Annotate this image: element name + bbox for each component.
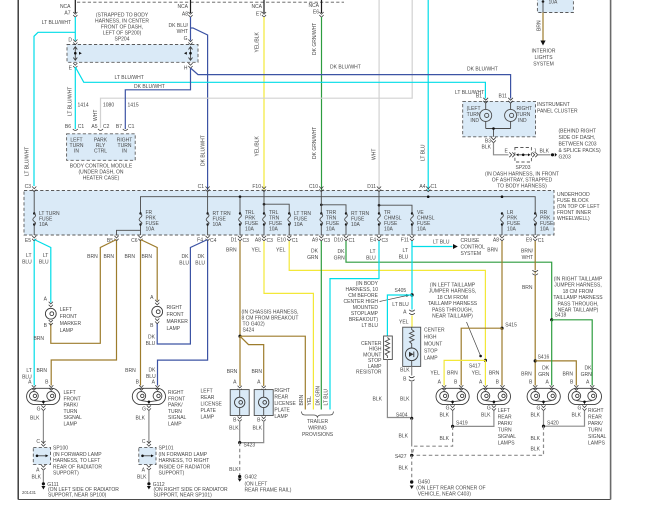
svg-text:B11: B11 <box>498 94 507 100</box>
svg-text:REAR: REAR <box>588 415 602 421</box>
svg-text:S420: S420 <box>547 421 559 427</box>
svg-text:JUMPER HARNESS,: JUMPER HARNESS, <box>429 289 477 295</box>
svg-text:PARK/: PARK/ <box>64 403 79 409</box>
svg-text:HEATER CASE): HEATER CASE) <box>83 176 120 182</box>
fuse 10A top right <box>542 0 545 3</box>
wire LT BLU jog to marker lamp A <box>34 240 51 303</box>
svg-text:LEFT: LEFT <box>498 408 510 414</box>
terminal A7 <box>73 12 77 17</box>
svg-text:LT: LT <box>43 253 48 259</box>
svg-text:BLK: BLK <box>373 397 383 403</box>
wire BLK to S404 <box>411 382 413 418</box>
svg-text:INTERIOR: INTERIOR <box>532 49 556 55</box>
splice S415 <box>500 327 503 330</box>
svg-text:REAR: REAR <box>274 395 288 401</box>
underhood fuse block box <box>24 191 554 236</box>
wire NCA A8 <box>190 0 192 13</box>
svg-text:SYSTEM: SYSTEM <box>533 62 554 68</box>
svg-text:CTRL: CTRL <box>94 149 107 155</box>
wire BRN S415 down to lamp4 B <box>501 328 503 385</box>
svg-text:SIGNAL: SIGNAL <box>588 434 607 440</box>
svg-text:F10: F10 <box>252 184 261 190</box>
ground G111 <box>42 482 45 485</box>
svg-text:LT BLU: LT BLU <box>421 144 427 161</box>
svg-text:DK BLU/WHT: DK BLU/WHT <box>467 67 498 73</box>
wire DK BLU C4 straight down then to right park lamp A <box>158 241 208 386</box>
bus bar park feed <box>141 197 536 214</box>
svg-text:BETWEEN C203: BETWEEN C203 <box>559 142 597 148</box>
svg-text:DK GRN: DK GRN <box>315 386 321 406</box>
svg-text:S424: S424 <box>243 328 255 334</box>
svg-text:& SPLICE PACKS): & SPLICE PACKS) <box>559 148 601 154</box>
svg-text:PLATE: PLATE <box>274 408 290 414</box>
splice S418 <box>550 318 553 321</box>
svg-text:FRONT: FRONT <box>64 396 81 402</box>
svg-text:DK: DK <box>338 249 346 255</box>
svg-text:LAMP: LAMP <box>201 415 215 421</box>
svg-text:CENTER: CENTER <box>424 328 445 334</box>
right rear license plate lamp <box>254 380 273 424</box>
svg-text:SIGNAL: SIGNAL <box>168 415 187 421</box>
splice S419 <box>451 425 454 428</box>
svg-text:BLK: BLK <box>540 149 550 155</box>
wire BRN C6 jog to right marker lamp A <box>141 240 158 301</box>
svg-text:LT: LT <box>26 368 31 374</box>
svg-text:LAMP: LAMP <box>167 326 181 332</box>
wire DK BLU F4 jog then to right marker lamp B <box>157 240 207 345</box>
wire BRN to interior lights <box>542 13 544 42</box>
svg-text:C1: C1 <box>349 238 356 244</box>
wire DK BLU/WHT from A8 down to G <box>190 17 192 41</box>
svg-text:YEL: YEL <box>307 396 313 406</box>
svg-text:VEHICLE, NEAR C403): VEHICLE, NEAR C403) <box>418 492 471 498</box>
svg-text:G: G <box>142 407 146 413</box>
svg-text:BRN: BRN <box>124 254 135 260</box>
wire BRN S424 to trailer <box>240 336 305 409</box>
wire LT BLU E4 down-left to trailer <box>330 241 379 410</box>
svg-text:TAILLAMP HARNESS: TAILLAMP HARNESS <box>428 301 478 307</box>
svg-text:1080: 1080 <box>103 103 114 109</box>
svg-text:RESISTOR: RESISTOR <box>356 370 382 376</box>
svg-text:A9: A9 <box>312 238 318 244</box>
svg-text:RIGHT: RIGHT <box>274 388 290 394</box>
svg-text:BLK: BLK <box>481 413 491 419</box>
svg-text:BLU: BLU <box>399 255 409 261</box>
svg-text:RIGHT: RIGHT <box>588 408 604 414</box>
svg-text:A8: A8 <box>255 238 261 244</box>
splice S404 <box>410 417 413 420</box>
svg-text:LAMP: LAMP <box>60 328 74 334</box>
svg-text:SUPPORT): SUPPORT) <box>159 471 185 477</box>
svg-text:DK BLU/WHT: DK BLU/WHT <box>330 65 361 71</box>
svg-text:SYSTEM: SYSTEM <box>461 251 482 257</box>
svg-text:10A: 10A <box>507 227 517 233</box>
svg-text:BLK: BLK <box>531 413 541 419</box>
svg-text:C: C <box>142 439 146 445</box>
svg-text:18 CM FROM: 18 CM FROM <box>437 295 468 301</box>
svg-text:10A: 10A <box>245 227 255 233</box>
svg-text:LIGHTS: LIGHTS <box>534 55 553 61</box>
svg-text:C3: C3 <box>267 238 274 244</box>
svg-text:YEL: YEL <box>252 248 262 254</box>
wire NCA E6 <box>321 0 323 13</box>
page border right <box>610 0 612 500</box>
svg-text:C1: C1 <box>198 184 205 190</box>
svg-text:LAMP: LAMP <box>168 422 182 428</box>
svg-text:BLK: BLK <box>572 413 582 419</box>
wire LT BLU F11 down to S405 <box>411 241 413 295</box>
svg-text:RIGHT: RIGHT <box>168 390 184 396</box>
svg-text:BLU: BLU <box>39 260 49 266</box>
arrow cruise control <box>453 244 458 249</box>
wire BLK lamp4 G to S419 <box>453 411 494 427</box>
terminal A8 <box>188 12 192 17</box>
wire BLK dashed S427 to G450 <box>411 455 413 480</box>
svg-text:WHT: WHT <box>177 29 188 35</box>
svg-text:S404: S404 <box>396 413 408 419</box>
right rear park/turn signal lamp 1 <box>527 385 560 410</box>
svg-text:BLU: BLU <box>146 341 156 347</box>
svg-text:PANEL CLUSTER: PANEL CLUSTER <box>537 109 578 115</box>
wire DK GRN S418 down to lamp5 A <box>551 320 553 386</box>
svg-text:LAMP: LAMP <box>64 422 78 428</box>
svg-text:BLK: BLK <box>229 467 239 473</box>
svg-text:A5: A5 <box>91 124 97 130</box>
svg-text:SP100: SP100 <box>53 446 68 452</box>
cluster internal junction to B3 <box>486 129 511 137</box>
svg-text:C3: C3 <box>324 238 331 244</box>
svg-text:BLK: BLK <box>229 426 239 432</box>
svg-text:IND: IND <box>518 118 527 124</box>
svg-text:TURN: TURN <box>64 409 78 415</box>
svg-text:S427: S427 <box>395 454 407 460</box>
svg-text:C1: C1 <box>538 238 545 244</box>
wire LT BLU/WHT from A7 to SP204 D and branch left <box>74 17 76 41</box>
svg-text:LT BLU/WHT: LT BLU/WHT <box>25 147 31 176</box>
wire BRN A8 down to S415 <box>501 241 503 328</box>
svg-text:10A: 10A <box>417 227 427 233</box>
left turn indicator bulb <box>480 104 492 129</box>
svg-text:(BEHIND RIGHT: (BEHIND RIGHT <box>559 129 597 135</box>
wire LT BLU S405 down to connector A <box>411 295 413 310</box>
svg-text:A7: A7 <box>64 11 70 17</box>
wire BRN S424 branch to right license lamp <box>240 336 264 386</box>
svg-text:C6: C6 <box>131 238 138 244</box>
pointer to S405 <box>380 296 408 302</box>
svg-text:C: C <box>36 439 40 445</box>
svg-text:PARK/: PARK/ <box>588 421 603 427</box>
svg-text:10A: 10A <box>146 227 156 233</box>
svg-text:C1: C1 <box>128 124 135 130</box>
svg-text:BLK: BLK <box>400 368 410 374</box>
svg-text:G: G <box>184 36 188 42</box>
svg-text:BRN: BRN <box>299 395 305 406</box>
wire YEL E10 down right to S417 <box>289 241 485 360</box>
svg-text:LT BLU: LT BLU <box>323 389 329 406</box>
svg-text:DK BLU/WHT: DK BLU/WHT <box>134 84 165 90</box>
svg-text:NCA: NCA <box>177 4 188 10</box>
svg-text:BLK: BLK <box>30 416 40 422</box>
wire LT BLU S405 branch to resistor <box>387 295 412 336</box>
svg-text:BLK: BLK <box>531 447 541 453</box>
svg-text:PROVISIONS: PROVISIONS <box>302 432 334 438</box>
svg-text:TO BODY HARNESS): TO BODY HARNESS) <box>497 184 547 190</box>
svg-text:BRN: BRN <box>36 368 47 374</box>
svg-text:SUPPORT, NEAR SP101): SUPPORT, NEAR SP101) <box>154 493 213 499</box>
svg-text:TURN: TURN <box>588 428 602 434</box>
svg-text:201431: 201431 <box>22 490 37 495</box>
svg-text:BRN: BRN <box>33 336 44 342</box>
terminal E6 <box>319 12 323 17</box>
wire BLK lamp3 G to S419 <box>452 411 454 427</box>
wire YEL/BLK from E7 down to F10 <box>263 17 265 190</box>
wire BLK S404 to S427 <box>411 418 413 443</box>
bus green feed <box>321 205 346 214</box>
svg-text:BLU: BLU <box>146 374 156 380</box>
svg-text:FRONT: FRONT <box>167 312 184 318</box>
svg-text:D1: D1 <box>231 238 238 244</box>
wire BLK right lamp G to SP101 <box>148 411 150 445</box>
svg-text:LAMPS: LAMPS <box>588 441 606 447</box>
wire BRN B5 straight down <box>51 241 116 386</box>
ground G450 <box>410 480 413 483</box>
svg-text:REAR OF RADIATOR: REAR OF RADIATOR <box>53 464 102 470</box>
svg-text:G: G <box>487 406 491 412</box>
svg-text:(IN FORWARD LAMP: (IN FORWARD LAMP <box>159 452 208 458</box>
svg-text:SP204: SP204 <box>114 37 129 43</box>
svg-text:LAMP: LAMP <box>274 414 288 420</box>
svg-text:CONTROL: CONTROL <box>461 245 486 251</box>
svg-text:10A: 10A <box>384 227 394 233</box>
wire YEL S417 down to lamp4 A <box>484 360 486 385</box>
svg-text:10A: 10A <box>351 222 361 228</box>
svg-text:GRN: GRN <box>581 372 593 378</box>
svg-text:WIRING: WIRING <box>308 426 327 432</box>
svg-text:DK: DK <box>182 254 190 260</box>
left front park/turn signal lamp <box>27 385 60 410</box>
svg-text:BRN: BRN <box>537 20 543 31</box>
svg-text:BRN: BRN <box>87 254 98 260</box>
wire LT BLU from E5 to left front park lamp A <box>33 241 35 386</box>
fuse TR TRN 10A <box>320 191 322 236</box>
svg-text:DK: DK <box>148 335 156 341</box>
fuse TR CHMSL 10A <box>378 191 380 236</box>
svg-text:DK: DK <box>542 366 550 372</box>
svg-text:GRN: GRN <box>538 372 550 378</box>
svg-text:D10: D10 <box>334 238 343 244</box>
wire DK BLU/WHT jog to x=207.6 <box>191 28 208 190</box>
fuse RR PRK 10A <box>534 225 536 236</box>
svg-text:IN: IN <box>74 149 79 155</box>
wire NCA E7 <box>263 0 265 13</box>
wire BRN S424 to left license lamp <box>239 336 241 386</box>
svg-text:PASS THROUGH,: PASS THROUGH, <box>558 301 599 307</box>
svg-text:CRUISE: CRUISE <box>461 238 481 244</box>
node A4 feed <box>427 195 430 198</box>
svg-text:SP203: SP203 <box>515 165 530 171</box>
svg-text:SUPPORT): SUPPORT) <box>53 471 79 477</box>
svg-text:E6: E6 <box>313 10 319 16</box>
svg-text:WHT: WHT <box>522 255 533 261</box>
svg-text:TURN: TURN <box>498 428 512 434</box>
wire LT BLU/WHT horizontal from E to cluster B1 <box>75 67 485 99</box>
svg-text:BLK: BLK <box>440 436 450 442</box>
svg-text:G402: G402 <box>245 475 257 481</box>
svg-text:MARKER: MARKER <box>60 321 82 327</box>
left rear license plate lamp <box>230 380 249 424</box>
svg-text:LT BLU/WHT: LT BLU/WHT <box>115 75 144 81</box>
wire BRN S415 branch left to lamp3 B <box>461 328 502 385</box>
svg-text:C1: C1 <box>431 184 438 190</box>
svg-text:B6: B6 <box>65 124 71 130</box>
svg-text:C10: C10 <box>309 184 318 190</box>
svg-text:(IN RIGHT TAILLAMP: (IN RIGHT TAILLAMP <box>554 277 603 283</box>
svg-text:LICENSE: LICENSE <box>201 402 223 408</box>
right front park/turn signal lamp <box>132 385 165 410</box>
svg-text:G: G <box>446 406 450 412</box>
fuse FR PRK 10A <box>117 225 141 236</box>
right turn indicator bulb <box>505 104 517 129</box>
svg-text:RIGHT: RIGHT <box>167 305 183 311</box>
wire YEL S417 branch left to lamp3 A <box>444 360 485 385</box>
svg-text:A4: A4 <box>419 184 425 190</box>
splice pack SP100 <box>33 447 50 464</box>
bus yellow turn feed <box>264 204 289 213</box>
svg-text:BLK: BLK <box>399 434 409 440</box>
wire DK GRN A9 down to trailer <box>320 241 322 410</box>
node LR PRK feed <box>501 195 504 198</box>
svg-text:C1: C1 <box>292 238 299 244</box>
svg-text:18 CM FROM: 18 CM FROM <box>563 289 594 295</box>
svg-text:LICENSE: LICENSE <box>274 401 296 407</box>
wire BLK lamp6 G to S420 <box>544 411 585 427</box>
svg-text:WHT: WHT <box>93 110 99 121</box>
wire BRN S416 branch right to lamp6 B <box>535 361 576 386</box>
wire NCA A7 <box>74 0 76 13</box>
left front marker lamp <box>45 302 56 325</box>
svg-text:WHT: WHT <box>372 149 378 160</box>
svg-text:NEAR TAILLAMP): NEAR TAILLAMP) <box>432 314 473 320</box>
svg-text:BRN: BRN <box>226 248 237 254</box>
ground G112 <box>147 482 150 485</box>
svg-text:HIGH: HIGH <box>424 335 437 341</box>
wire BLK dashed S420 to S427 <box>413 426 544 455</box>
svg-text:E5: E5 <box>25 238 31 244</box>
svg-text:LT BLU: LT BLU <box>433 240 450 246</box>
splice SP203 <box>515 148 532 163</box>
svg-text:S423: S423 <box>244 443 256 449</box>
brace trailer <box>302 412 334 418</box>
svg-text:C3: C3 <box>243 238 250 244</box>
svg-text:INSIDE OF RADIATOR: INSIDE OF RADIATOR <box>159 464 211 470</box>
wire DK BLU/WHT from H down to BCM B7 <box>125 68 190 129</box>
svg-text:BRN/: BRN/ <box>521 249 534 255</box>
svg-text:1415: 1415 <box>128 103 139 109</box>
svg-text:BLU: BLU <box>195 261 205 267</box>
ground G203 <box>551 153 554 156</box>
svg-text:C2: C2 <box>103 124 110 130</box>
svg-text:BLU: BLU <box>22 375 32 381</box>
svg-text:FRONT: FRONT <box>60 314 77 320</box>
ground G402 <box>238 475 241 478</box>
svg-text:BLK: BLK <box>137 475 147 481</box>
wire DK BLU/WHT from H to cluster B11 <box>191 68 511 99</box>
wire BRN C6 straight down to right park lamp B <box>140 241 142 386</box>
wire YEL connector to CHMSL lamp <box>411 316 413 328</box>
svg-text:SUPPORT, NEAR SP100): SUPPORT, NEAR SP100) <box>48 493 107 499</box>
svg-text:TRAILER: TRAILER <box>307 419 329 425</box>
splice S423 <box>238 441 241 444</box>
svg-text:GRN: GRN <box>334 256 346 262</box>
svg-text:10A: 10A <box>540 227 550 233</box>
svg-text:H: H <box>184 66 188 72</box>
svg-text:SIGNAL: SIGNAL <box>498 434 517 440</box>
svg-text:BRN: BRN <box>489 371 500 377</box>
svg-text:LT: LT <box>26 253 31 259</box>
wire LT BLU/WHT from E down to BCM B6 <box>74 67 76 129</box>
splice S405 <box>410 293 413 296</box>
svg-text:DK: DK <box>148 368 156 374</box>
svg-text:BLU: BLU <box>366 256 376 262</box>
svg-text:BLU: BLU <box>22 260 32 266</box>
wire DK GRN/WHT from E6 down to C10 <box>321 17 323 190</box>
svg-text:PARK/: PARK/ <box>498 421 513 427</box>
instrument panel cluster box <box>463 101 536 136</box>
svg-text:BRN: BRN <box>521 372 532 378</box>
svg-text:LT BLU: LT BLU <box>362 323 379 329</box>
svg-text:IN: IN <box>122 149 127 155</box>
svg-text:BLK: BLK <box>400 397 410 403</box>
splice S424 <box>238 335 241 338</box>
svg-text:10A: 10A <box>269 227 279 233</box>
svg-text:DK: DK <box>198 254 206 260</box>
svg-text:REAR: REAR <box>498 415 512 421</box>
svg-text:REAR FRAME RAIL): REAR FRAME RAIL) <box>245 488 292 494</box>
body control module box <box>67 134 136 161</box>
svg-text:BRN: BRN <box>141 254 152 260</box>
svg-text:SIDE OF DASH,: SIDE OF DASH, <box>559 135 596 141</box>
wire BRN/WHT E9 down <box>534 241 536 386</box>
svg-text:SP101: SP101 <box>159 446 174 452</box>
wire cyan branch to far left <box>34 32 75 186</box>
svg-text:BLK: BLK <box>32 475 42 481</box>
svg-text:MARKER: MARKER <box>167 319 189 325</box>
wire BLK dashed to G402 <box>239 443 241 475</box>
svg-text:C3: C3 <box>25 184 32 190</box>
svg-text:LAMP: LAMP <box>424 356 438 362</box>
svg-text:BLU: BLU <box>179 261 189 267</box>
pointer to S417 <box>467 322 481 355</box>
svg-text:BRN: BRN <box>227 369 238 375</box>
svg-text:NCA: NCA <box>251 4 262 10</box>
node TRL PRK feed <box>239 195 242 198</box>
svg-text:INSTRUMENT: INSTRUMENT <box>537 102 570 108</box>
svg-text:DK GRN/WHT: DK GRN/WHT <box>312 23 318 55</box>
wire BLK right license to S423 <box>240 421 264 443</box>
wire BLK from SP203 to G203 <box>538 154 551 156</box>
svg-text:D: D <box>68 38 72 44</box>
wire BLK resistor to S404 <box>387 360 410 418</box>
svg-text:BLK: BLK <box>253 426 263 432</box>
svg-text:F11: F11 <box>401 238 409 244</box>
svg-text:DK: DK <box>585 366 593 372</box>
wire BLK left license to S423 <box>239 421 241 443</box>
svg-text:TAILLAMP HARNESS: TAILLAMP HARNESS <box>553 295 603 301</box>
svg-text:E7: E7 <box>256 12 262 18</box>
svg-text:HARNESS, TO RIGHT: HARNESS, TO RIGHT <box>159 458 210 464</box>
fuse VE CHMSL 10A <box>411 225 413 236</box>
svg-text:S415: S415 <box>505 323 517 329</box>
